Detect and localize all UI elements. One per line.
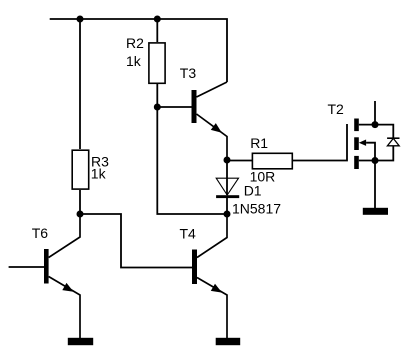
svg-text:T4: T4	[180, 225, 197, 241]
label T6	[32, 225, 49, 241]
wire body diode anode to source	[375, 146, 393, 161]
ground T2 source	[363, 208, 388, 215]
svg-text:1N5817: 1N5817	[232, 201, 281, 217]
svg-text:T6: T6	[32, 225, 49, 241]
ground T4 emitter	[216, 338, 241, 345]
junction R3 / T6 collector node	[77, 211, 84, 218]
transistor T4	[192, 214, 227, 338]
wire T2 drain	[359, 101, 375, 125]
transistor T3	[192, 82, 228, 160]
svg-text:1k: 1k	[91, 166, 107, 182]
wire T3 base	[157, 106, 191, 108]
transistor T2 MOSFET	[354, 119, 366, 170]
resistor R1	[252, 153, 292, 169]
junction T3 emitter / R1 node	[224, 157, 231, 164]
svg-text:R1: R1	[250, 135, 268, 151]
ground T6 emitter	[68, 338, 93, 345]
label T3	[180, 65, 197, 81]
label R1 value	[250, 135, 276, 185]
junction T2 drain node	[372, 121, 379, 128]
label R3 value	[91, 154, 109, 182]
junction T2 source node	[372, 157, 379, 164]
label R2 value	[126, 35, 144, 69]
svg-text:T3: T3	[180, 65, 197, 81]
wire drain to body diode	[375, 125, 393, 138]
junction D1 cathode / T4 collector node	[224, 211, 231, 218]
wire node to T4 base	[80, 214, 192, 268]
junction top rail / R3 branch	[77, 16, 84, 23]
wire R3 top	[79, 19, 81, 149]
wire T2 source to ground	[374, 161, 376, 209]
wire R1 to T2 gate	[293, 124, 347, 161]
wire R1 left	[227, 160, 252, 162]
label D1 value	[232, 183, 281, 217]
junction T3 base node	[154, 104, 161, 111]
resistor R2	[149, 43, 165, 83]
label T2	[328, 101, 345, 117]
svg-text:R2: R2	[126, 35, 144, 51]
wire R2 top	[156, 19, 158, 42]
label T4	[180, 225, 197, 241]
wire T2 body to source	[366, 143, 375, 161]
svg-text:D1: D1	[244, 183, 262, 199]
svg-text:1k: 1k	[126, 53, 142, 69]
wire T6 base stub	[9, 266, 44, 268]
wire T2 source	[359, 160, 375, 162]
body diode of T2	[387, 138, 399, 146]
transistor T6	[44, 214, 80, 338]
wire R2 bottom	[156, 84, 158, 107]
junction top rail / R2 branch	[154, 16, 161, 23]
wire T3 base to D1 cathode node	[157, 107, 227, 214]
svg-text:T2: T2	[328, 101, 345, 117]
diode D1	[216, 160, 239, 214]
wire R3 bottom	[79, 190, 81, 214]
resistor R3	[72, 150, 89, 189]
wire top supply rail	[50, 19, 227, 82]
